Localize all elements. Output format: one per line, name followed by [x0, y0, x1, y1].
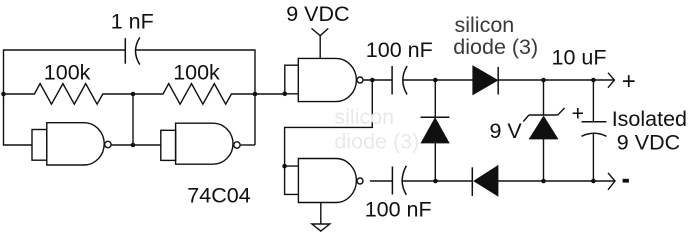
- label Isolated: [612, 107, 687, 131]
- NAND gate U1B (74C04 inverter): [161, 123, 240, 164]
- svg-text:diode (3): diode (3): [334, 130, 419, 154]
- label silicon: [455, 13, 515, 37]
- NAND gate U1A (74C04 inverter): [32, 123, 111, 165]
- zener diode DZ 9 V: [523, 80, 564, 181]
- svg-text:+: +: [622, 68, 636, 95]
- node dot: R1 left / gate1 input: [1, 92, 6, 97]
- wire: C2 to D1: [403, 79, 473, 81]
- svg-text:100k: 100k: [173, 60, 220, 84]
- wire: C1 right plate to node C vertical: [136, 50, 255, 145]
- node dot: U2B input junction: [282, 164, 287, 169]
- node dot: U1A output junction: [131, 143, 136, 148]
- svg-text:silicon: silicon: [334, 105, 394, 129]
- power symbol 9 VDC: [312, 28, 329, 58]
- svg-text:9 VDC: 9 VDC: [286, 2, 349, 26]
- resistor R1 100k: [4, 84, 134, 105]
- node dot: C4 top: [591, 78, 596, 83]
- capacitor C2 100 nF top: [392, 66, 407, 95]
- ground symbol: [312, 203, 330, 232]
- label C4 polarity +: [572, 102, 585, 126]
- label R1 value 100k: [44, 60, 91, 84]
- wire: U1B output to node C: [240, 144, 255, 146]
- watermark silicon: [334, 105, 394, 129]
- watermark diode (3): [334, 130, 419, 154]
- NAND gate U2A input tie bar: [285, 65, 299, 94]
- label - terminal: [623, 179, 629, 183]
- svg-text:100 nF: 100 nF: [365, 198, 432, 222]
- NAND gate U2B body: [298, 159, 363, 203]
- wire: U2A output down to U2B input: [285, 80, 373, 166]
- node dot: U2A output junction: [370, 78, 375, 83]
- wire: U2B output to C3: [370, 180, 393, 182]
- wire: U2A output to C2: [363, 79, 392, 81]
- label C2 value 100 nF: [366, 38, 433, 62]
- svg-text:diode (3): diode (3): [453, 35, 538, 59]
- svg-text:10 uF: 10 uF: [552, 46, 607, 70]
- capacitor C4 10 uF (polarized): [582, 80, 607, 181]
- label 9 VDC supply: [286, 2, 349, 26]
- NAND gate U2B input tie bar: [285, 166, 299, 194]
- label + terminal: [622, 68, 636, 95]
- node dot: C4 bottom: [591, 179, 596, 184]
- resistor R2 100k: [133, 84, 255, 105]
- NAND gate U2A body: [298, 58, 363, 101]
- terminal arrow -: [608, 173, 615, 190]
- branch diode D2 (shunt, pointing up): [421, 80, 450, 181]
- wire: D3 to - terminal: [498, 180, 615, 182]
- label C4 value 10 uF: [552, 46, 607, 70]
- node dot: U2A input junction: [283, 92, 288, 97]
- diode D1 (silicon, top rail): [473, 66, 498, 95]
- svg-text:1 nF: 1 nF: [111, 9, 154, 33]
- node dot: R1-R2 junction: [131, 92, 136, 97]
- wire: C3 to D3: [402, 180, 472, 182]
- label R2 value 100k: [173, 60, 220, 84]
- wire: U1A output to U1B input: [111, 144, 161, 146]
- wire: R1-R2 junction down to U1A output: [132, 94, 134, 145]
- terminal arrow +: [608, 73, 614, 88]
- svg-text:silicon: silicon: [455, 13, 515, 37]
- svg-text:9 V: 9 V: [490, 119, 523, 143]
- wire: U1A input node / C1 left / R1 left vertical: [4, 50, 126, 145]
- label C1 value 1 nF: [111, 9, 154, 33]
- wire: D1 to + terminal: [498, 79, 614, 81]
- capacitor C1 1 nF: [125, 37, 140, 64]
- node dot: top rail D2 branch: [433, 78, 438, 83]
- label zener 9 V: [490, 119, 523, 143]
- node dot: R2 right / node C: [253, 92, 258, 97]
- label diode (3): [453, 35, 538, 59]
- svg-text:100 nF: 100 nF: [366, 38, 433, 62]
- label isolated 9 VDC: [617, 131, 680, 155]
- label C3 value 100 nF: [365, 198, 432, 222]
- svg-text:100k: 100k: [44, 60, 91, 84]
- svg-text:74C04: 74C04: [187, 183, 250, 207]
- diode D3 (silicon, bottom rail, pointing left): [472, 166, 498, 196]
- svg-text:Isolated: Isolated: [612, 107, 687, 131]
- node dot: zener top: [541, 78, 546, 83]
- svg-text:+: +: [572, 102, 585, 126]
- node dot: bottom rail D2 branch: [433, 179, 438, 184]
- svg-text:9 VDC: 9 VDC: [617, 131, 680, 155]
- label 74C04: [187, 183, 250, 207]
- node dot: zener bottom: [541, 179, 546, 184]
- capacitor C3 100 nF bottom: [392, 166, 406, 195]
- wire: oscillator output to buffer gates: [255, 93, 285, 95]
